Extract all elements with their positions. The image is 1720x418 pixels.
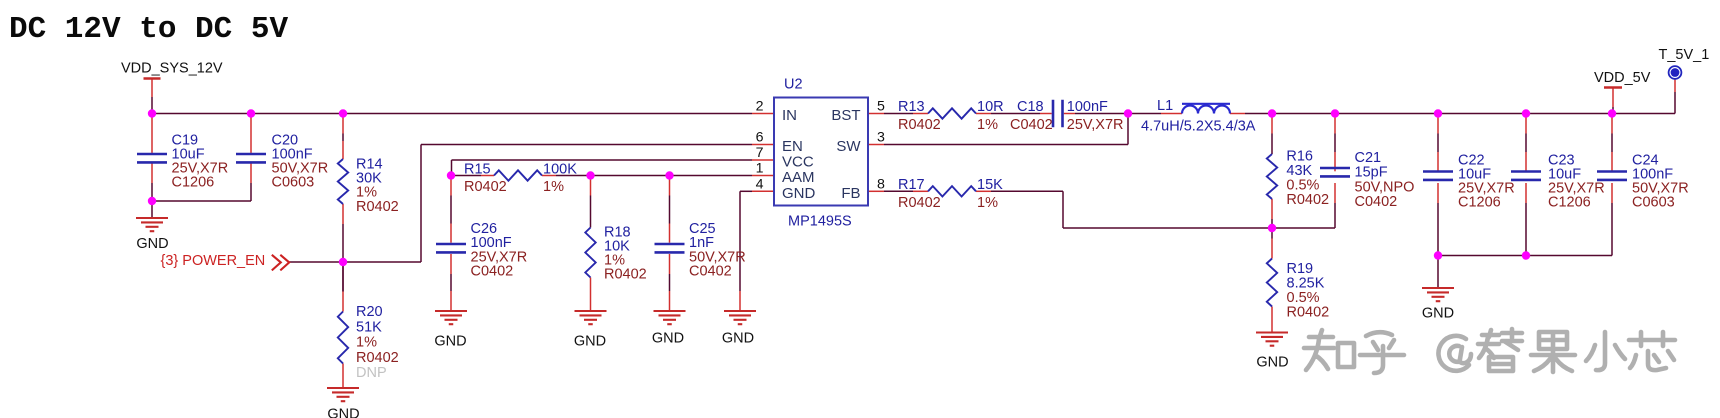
- svg-text:{3} POWER_EN: {3} POWER_EN: [161, 253, 266, 269]
- svg-text:15K: 15K: [977, 177, 1003, 193]
- svg-text:DC 12V to DC 5V: DC 12V to DC 5V: [9, 12, 288, 47]
- svg-text:GND: GND: [136, 236, 168, 252]
- svg-text:1%: 1%: [543, 179, 564, 195]
- svg-text:C18: C18: [1017, 99, 1044, 115]
- svg-text:C21: C21: [1355, 150, 1382, 166]
- svg-text:2: 2: [756, 99, 764, 115]
- svg-text:51K: 51K: [356, 319, 382, 335]
- svg-text:C1206: C1206: [1458, 195, 1501, 211]
- svg-text:C0402: C0402: [689, 263, 732, 279]
- svg-text:FB: FB: [841, 185, 860, 202]
- svg-text:R20: R20: [356, 304, 383, 320]
- svg-text:U2: U2: [784, 76, 803, 92]
- svg-text:GND: GND: [434, 334, 466, 350]
- svg-text:50V,NPO: 50V,NPO: [1355, 179, 1415, 195]
- svg-text:100K: 100K: [543, 162, 577, 178]
- svg-text:L1: L1: [1157, 98, 1173, 114]
- svg-text:4: 4: [756, 176, 764, 192]
- svg-text:C1206: C1206: [1548, 195, 1591, 211]
- svg-text:R0402: R0402: [898, 195, 941, 211]
- svg-text:1: 1: [756, 161, 764, 177]
- svg-text:R0402: R0402: [1286, 192, 1329, 208]
- svg-text:EN: EN: [782, 138, 803, 155]
- svg-text:C0402: C0402: [1355, 194, 1398, 210]
- svg-text:GND: GND: [327, 407, 359, 418]
- svg-text:AAM: AAM: [782, 169, 815, 186]
- svg-text:C0603: C0603: [272, 175, 315, 191]
- svg-text:5: 5: [877, 99, 885, 115]
- svg-text:3: 3: [877, 130, 885, 146]
- svg-text:R0402: R0402: [1287, 304, 1330, 320]
- svg-text:R0402: R0402: [898, 117, 941, 133]
- svg-text:100nF: 100nF: [1067, 99, 1108, 115]
- svg-text:VDD_SYS_12V: VDD_SYS_12V: [121, 61, 223, 77]
- svg-text:R15: R15: [464, 162, 491, 178]
- svg-text:8: 8: [877, 176, 885, 192]
- svg-text:R0402: R0402: [464, 179, 507, 195]
- svg-text:DNP: DNP: [356, 365, 387, 381]
- svg-text:IN: IN: [782, 107, 797, 124]
- svg-text:4.7uH/5.2X5.4/3A: 4.7uH/5.2X5.4/3A: [1141, 119, 1256, 135]
- svg-text:R13: R13: [898, 99, 925, 115]
- svg-text:C1206: C1206: [172, 175, 215, 191]
- svg-text:25V,X7R: 25V,X7R: [1067, 117, 1124, 133]
- svg-text:7: 7: [756, 145, 764, 161]
- svg-text:VCC: VCC: [782, 154, 814, 171]
- svg-text:GND: GND: [722, 331, 754, 347]
- svg-text:1%: 1%: [356, 335, 377, 351]
- svg-text:T_5V_1: T_5V_1: [1659, 47, 1710, 63]
- svg-text:MP1495S: MP1495S: [788, 214, 852, 230]
- svg-text:SW: SW: [836, 138, 861, 155]
- svg-text:GND: GND: [1422, 306, 1454, 322]
- svg-text:1%: 1%: [977, 117, 998, 133]
- svg-text:R0402: R0402: [604, 267, 647, 283]
- svg-text:R0402: R0402: [356, 350, 399, 366]
- svg-text:C0603: C0603: [1632, 195, 1675, 211]
- svg-text:GND: GND: [782, 185, 816, 202]
- svg-text:C0402: C0402: [471, 263, 514, 279]
- svg-text:GND: GND: [652, 331, 684, 347]
- svg-text:GND: GND: [1256, 355, 1288, 371]
- svg-text:GND: GND: [574, 334, 606, 350]
- svg-text:15pF: 15pF: [1355, 165, 1388, 181]
- svg-text:VDD_5V: VDD_5V: [1594, 70, 1651, 86]
- svg-text:BST: BST: [831, 107, 860, 124]
- svg-text:6: 6: [756, 130, 764, 146]
- svg-text:R17: R17: [898, 177, 925, 193]
- svg-text:R0402: R0402: [356, 199, 399, 215]
- svg-text:1%: 1%: [977, 195, 998, 211]
- svg-text:10R: 10R: [977, 99, 1004, 115]
- svg-text:C0402: C0402: [1010, 117, 1053, 133]
